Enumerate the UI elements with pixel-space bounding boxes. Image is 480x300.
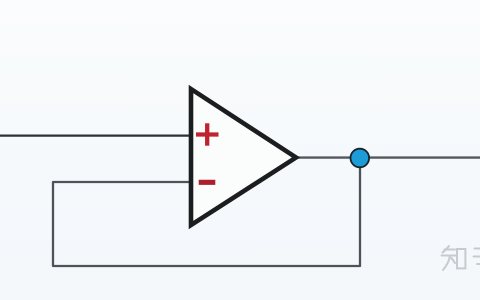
wire: feedback loop (minus input, left vertical, bottom run, up to output node) [53, 158, 360, 266]
op-amp plus (+) input marking [196, 123, 219, 145]
node: output junction dot [351, 149, 370, 168]
op-amp minus (-) input marking [199, 180, 216, 185]
watermark: partial Zhihu characters [442, 246, 480, 270]
wire: output from op-amp tip to right edge [296, 156, 480, 158]
wire: non-inverting input from left edge [0, 134, 192, 136]
op-amp U1 triangle body [191, 89, 296, 225]
